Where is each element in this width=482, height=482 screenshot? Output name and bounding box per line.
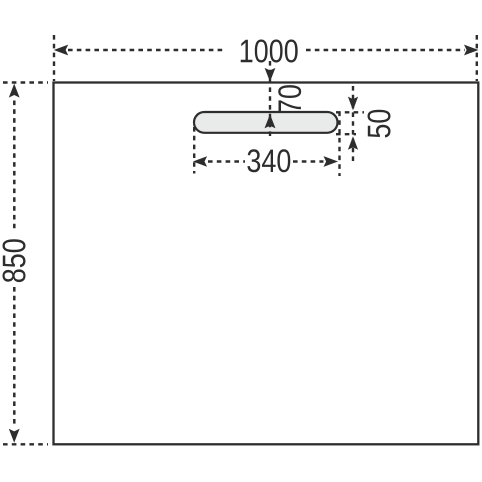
arrowhead 850 top — [9, 84, 20, 98]
arrowhead 50 upper (points down to slot top level) — [348, 97, 358, 111]
dimension text 1000 — [241, 40, 298, 63]
arrowhead 1000 right — [464, 45, 479, 56]
slot (340 x 50 rounded cutout) — [194, 112, 338, 133]
arrowhead 340 left — [193, 156, 207, 167]
extension line: top edge extended left — [3, 81, 48, 83]
dimension line 70 (vertical, from 1000 line to slot) — [269, 61, 271, 136]
dimension line 850 (bottom segment) — [13, 287, 16, 426]
dimension line 850 (top segment) — [13, 101, 16, 231]
extension line: bottom edge extended left — [3, 443, 48, 445]
dimension line 1000 (left segment) — [68, 49, 223, 52]
dimension line 340 (left segment) — [208, 160, 245, 162]
panel outline (1000 x 850 rectangle) — [54, 83, 479, 445]
arrowhead 850 bottom — [9, 429, 20, 443]
arrowhead 50 lower (points up to slot bottom level) — [348, 136, 358, 150]
extension line: slot right end extended down — [338, 112, 340, 177]
dimension text 70 (rotated) — [278, 85, 301, 113]
extension line: right edge extended up — [476, 35, 478, 81]
dimension line 340 (right segment) — [293, 160, 324, 162]
extension line: slot left end extended down — [193, 127, 195, 174]
arrowhead 1000 left — [54, 45, 68, 56]
dimension text 50 (rotated) — [368, 110, 391, 138]
extension line: left edge extended up — [53, 35, 55, 81]
extension line: slot top level, right of slot — [336, 111, 364, 113]
dimension text 850 (rotated) — [3, 239, 26, 282]
dimension text 340 — [247, 149, 290, 172]
extension line: slot bottom level, right of slot — [336, 133, 356, 135]
arrowhead 70 lower (points up to slot top edge) — [265, 114, 276, 128]
arrowhead 70 upper (points down to panel top edge) — [265, 68, 276, 82]
dimension line 1000 (right segment) — [306, 49, 465, 52]
dimension line 50 (vertical) — [352, 86, 354, 162]
arrowhead 340 right — [324, 156, 339, 167]
